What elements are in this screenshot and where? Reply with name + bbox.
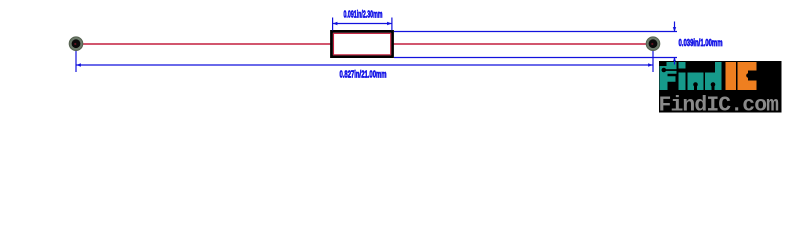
bottom dimension extension lines [76, 50, 653, 72]
right dimension lower stem over logo [674, 58, 676, 65]
extension line body right top [394, 31, 677, 33]
logo letter C [738, 62, 757, 90]
logo background chip [659, 61, 782, 113]
wire lead (red) [76, 43, 653, 45]
pad left [69, 37, 83, 51]
logo letter n [688, 73, 704, 91]
svg-text:0.827in/21.00mm: 0.827in/21.00mm [340, 70, 387, 81]
svg-text:0.039in/1.00mm: 0.039in/1.00mm [679, 38, 723, 49]
pad right [646, 37, 660, 51]
extension line body right bottom [394, 57, 677, 59]
bottom dimension line with arrows [76, 63, 652, 66]
right dimension stems with arrows [673, 22, 676, 65]
body outline inner red rect [332, 31, 393, 56]
svg-text:FindIC.com: FindIC.com [659, 93, 780, 117]
logo letter F [660, 62, 677, 90]
top dimension extension lines [333, 18, 392, 31]
top dimension line with arrows [333, 22, 392, 25]
logo letter d [705, 62, 722, 90]
logo letter i [679, 62, 686, 90]
svg-text:0.091in/2.30mm: 0.091in/2.30mm [344, 10, 383, 21]
logo letter I [726, 62, 737, 90]
